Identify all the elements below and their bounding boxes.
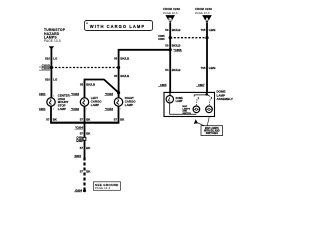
svg-text:57: 57 (80, 170, 84, 174)
svg-text:BK/LB: BK/LB (86, 83, 95, 87)
node where branch splits to left cargo lamp (117, 91, 120, 94)
svg-text:57: 57 (80, 131, 84, 135)
svg-text:PAGE 10-6: PAGE 10-6 (195, 11, 210, 15)
wire: right cargo ground stub (118, 106, 120, 122)
map lamp bulb left (193, 106, 200, 113)
label 57 BK (right) (114, 118, 126, 122)
svg-text:FROM C262: FROM C262 (163, 7, 180, 11)
svg-text:BK/LB: BK/LB (120, 56, 129, 60)
label 57 BK (left) (46, 118, 58, 122)
svg-text:LAMP: LAMP (125, 103, 133, 107)
splice label S804 (74, 154, 81, 158)
lamp: right cargo lamp (114, 98, 122, 106)
connector labels C805/C806 at right dashed line (158, 34, 165, 41)
dome lamp assembly box (164, 92, 215, 116)
node left end of right dashed line (169, 36, 172, 39)
node where middle feed taps left wire (169, 48, 172, 51)
svg-text:B: B (168, 17, 172, 23)
connector label C807 at box entry (196, 83, 205, 87)
dashed option line (right) (170, 37, 207, 39)
switch contact ticks (207, 94, 210, 96)
feed arrow into left wire (49, 46, 54, 50)
ground G904 (74, 188, 86, 192)
text DOME LAMP ASSEMBLY (217, 90, 233, 102)
connector label *C903 lower (105, 107, 123, 111)
text CENTER HIGH MOUNT STOP LAMP (58, 93, 71, 111)
node feed inside box (206, 93, 209, 96)
FROM C240 source (195, 7, 212, 15)
dome lamp bulb (166, 96, 173, 103)
label 57 BK (lower) (80, 146, 92, 150)
label 50 BK/LB upper (165, 28, 180, 32)
source label TURN/STOP HAZARD LAMPS (44, 28, 66, 43)
label 810 LG (upper) (45, 56, 58, 60)
svg-text:57: 57 (80, 118, 84, 122)
label 57 BK (middle) (80, 118, 92, 122)
wire into dome bulb (169, 92, 171, 96)
svg-text:50: 50 (165, 28, 169, 32)
svg-text:50: 50 (165, 43, 169, 47)
svg-text:05: 05 (114, 74, 118, 78)
label 50 BK/LB below dash (165, 43, 180, 47)
label 54 BK/LB (165, 68, 180, 72)
svg-text:C806: C806 (158, 37, 165, 41)
svg-text:A: A (205, 17, 209, 23)
wire: right-right vertical (705 LB/B) into dome lamp box (206, 23, 208, 94)
label 810 LG (lower) (45, 78, 58, 82)
note box SEE GROUND (93, 182, 120, 191)
switch feed bar (194, 95, 207, 97)
node on left wire at dashed line (50, 66, 53, 69)
wire: CHMSL ground stub (50, 106, 52, 122)
text DOME LAMP (inner) (176, 97, 184, 103)
wire: below inline connector (84, 140, 86, 157)
svg-text:ASSEMBLY: ASSEMBLY (217, 97, 233, 101)
label 05 BK/LB (lower) (114, 74, 129, 78)
svg-text:54: 54 (165, 68, 169, 72)
svg-text:05: 05 (114, 56, 118, 60)
label 705 LB/B upper (201, 28, 216, 32)
callout leader lines (197, 122, 205, 126)
note box WITH CARGO LAMP (85, 21, 153, 31)
connector label C901 upper (39, 92, 55, 97)
wire: dashed ground run (83, 158, 85, 191)
svg-text:LB/B: LB/B (209, 28, 216, 32)
lamp: center high mount stop lamp (47, 98, 55, 106)
triangle connector A (202, 15, 212, 24)
text MAP LAMPS AND SWITCH (inner) (182, 105, 191, 115)
callout box MAP LAMPS WITH SWITCHES (201, 126, 223, 136)
inline connector C408 (76, 136, 86, 143)
svg-text:BK/LB: BK/LB (172, 68, 181, 72)
wire: dome lamp interior return (170, 103, 197, 114)
svg-text:BK/LB: BK/LB (172, 43, 181, 47)
connector label *C902 upper (71, 92, 80, 96)
FROM C262 source (163, 7, 180, 15)
svg-text:SWITCHES: SWITCHES (206, 133, 219, 135)
connector label *C903 upper (105, 92, 114, 96)
text RIGHT CARGO LAMP (125, 96, 137, 107)
wire: middle feed horizontal + vertical (205 BK/LB) (119, 50, 171, 98)
connector label C805 at box entry (158, 83, 167, 87)
connector label *C902 lower (71, 107, 89, 111)
wire: left cargo ground stub (84, 106, 86, 122)
node right end of right dashed line (205, 36, 208, 39)
svg-text:BK/LB: BK/LB (120, 74, 129, 78)
svg-text:PAGE 14-2: PAGE 14-2 (95, 186, 111, 190)
svg-text:810: 810 (45, 56, 50, 60)
svg-text:LAMP: LAMP (176, 100, 183, 103)
wire: left main vertical (810 LG) (50, 49, 52, 98)
wire: right-left vertical (50 BK/LB) into dome lamp box (169, 23, 171, 93)
wire: branch to left cargo lamp (85, 80, 119, 98)
svg-text:PAGE 10-5: PAGE 10-5 (44, 39, 61, 43)
switch lever left (dashed) (196, 99, 199, 106)
label 57 BK (below bus) (80, 131, 92, 135)
label 705 LB/B lower (201, 66, 216, 70)
wire: ground drop from bus (84, 123, 86, 138)
node middle wire at dashed line (117, 66, 120, 69)
label 05 BK/LB (branch) (80, 83, 95, 87)
svg-text:57: 57 (46, 118, 50, 122)
text LEFT CARGO LAMP (91, 96, 103, 107)
connector label C901 lower (39, 107, 55, 111)
lamp: left cargo lamp (80, 98, 88, 106)
connector labels C805/C806 at boundary (39, 64, 50, 71)
callout arrow up (194, 119, 198, 124)
splice label *C904 (75, 126, 84, 130)
svg-text:LB/B: LB/B (209, 66, 216, 70)
svg-text:LAMP: LAMP (91, 103, 99, 107)
wire: ground bus (50, 122, 119, 124)
label 57 BK (bottom) (80, 170, 92, 174)
svg-text:810: 810 (45, 78, 50, 82)
svg-text:705: 705 (201, 66, 206, 70)
svg-text:05: 05 (80, 83, 84, 87)
svg-text:FROM C240: FROM C240 (195, 7, 212, 11)
label 05 BK/LB (upper) (114, 56, 129, 60)
switch lever right (dashed) (209, 99, 210, 106)
svg-text:57: 57 (80, 146, 84, 150)
svg-text:WITH CARGO LAMP: WITH CARGO LAMP (90, 24, 145, 29)
svg-text:705: 705 (201, 28, 206, 32)
map lamp bulb right (206, 106, 213, 113)
triangle connector B (165, 15, 175, 24)
svg-text:BK/LB: BK/LB (172, 28, 181, 32)
splice label *C806 (174, 48, 183, 52)
svg-text:57: 57 (114, 118, 118, 122)
svg-text:PAGE 10-6: PAGE 10-6 (163, 11, 178, 15)
svg-text:LAMP: LAMP (58, 107, 66, 111)
dashed option line (left) (51, 67, 118, 69)
